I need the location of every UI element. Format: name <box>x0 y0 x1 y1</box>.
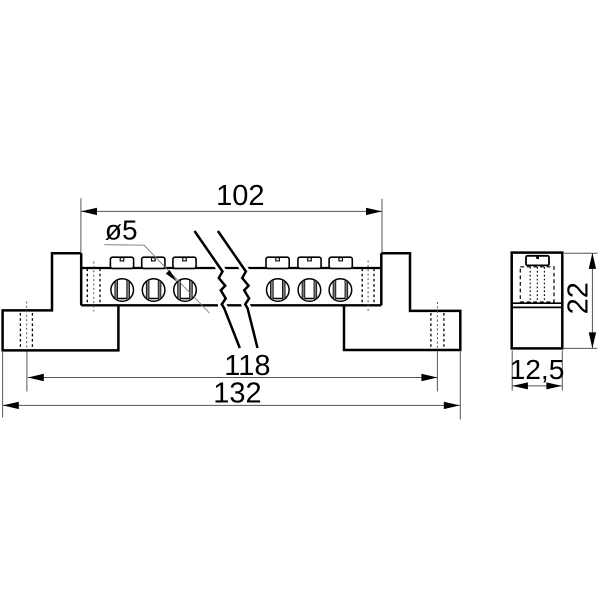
arrow 132 left <box>3 402 19 409</box>
bar left edge <box>80 253 83 305</box>
hidden slot lines <box>530 267 544 302</box>
leader arrowhead <box>166 270 177 282</box>
side tab <box>526 256 549 266</box>
separation double line upper <box>512 302 563 304</box>
hidden hole lines right foot <box>431 313 444 349</box>
separation double line lower <box>512 306 563 308</box>
extension line 132 right <box>459 351 461 420</box>
arrow 118 right <box>421 374 437 381</box>
svg-text:22: 22 <box>563 282 595 314</box>
extension line 132 left <box>2 352 4 418</box>
hidden hole lines right bar <box>362 269 374 305</box>
arrow 12,5 left <box>512 382 528 389</box>
dimension line 102 <box>81 210 382 212</box>
extension line 22 top <box>564 252 597 254</box>
bar top edge <box>81 267 381 269</box>
axis line left foot <box>26 302 28 349</box>
dimension line 118 <box>28 377 438 379</box>
arrow 22 bottom <box>589 332 596 348</box>
extension line 118 right <box>436 352 438 392</box>
terminal tabs row <box>110 257 133 268</box>
svg-text:12,5: 12,5 <box>510 353 565 385</box>
extension line 22 bottom <box>564 347 597 349</box>
extension line 12,5 left <box>511 351 513 391</box>
arrow 12,5 right <box>546 382 562 389</box>
right bracket outline <box>344 253 460 350</box>
bar bottom edge <box>81 304 381 306</box>
extension line 118 left <box>26 352 28 392</box>
leader line for hole diameter <box>104 245 209 313</box>
side body outline <box>512 253 563 349</box>
arrow 132 right <box>444 402 460 409</box>
hidden cavity rectangle <box>520 267 554 302</box>
arrow 22 top <box>589 253 596 269</box>
side tab slot mark <box>536 256 539 259</box>
break line left <box>195 231 240 348</box>
arrow 118 left <box>28 374 44 381</box>
extension line 102 right <box>381 199 383 253</box>
axis line right foot <box>436 302 438 349</box>
svg-text:102: 102 <box>216 180 264 212</box>
hidden hole lines left bar <box>87 269 100 305</box>
hidden hole lines left foot <box>20 313 32 349</box>
screws row <box>111 279 134 302</box>
left bracket outline <box>3 253 119 350</box>
bar right edge <box>380 253 383 305</box>
dimension line 132 <box>3 404 460 406</box>
arrow 102 right <box>366 208 382 215</box>
arrow 102 left <box>81 208 97 215</box>
svg-text:ø5: ø5 <box>105 215 138 246</box>
extension line 12,5 right <box>561 351 563 391</box>
dimension line 12,5 <box>512 385 562 387</box>
break line right <box>218 231 258 348</box>
svg-text:132: 132 <box>213 378 261 410</box>
axis line left bar <box>93 262 95 312</box>
extension line 102 left <box>80 198 82 252</box>
dimension line 22 <box>591 253 593 348</box>
break line white casing <box>195 231 258 348</box>
axis line right bar <box>367 261 369 313</box>
